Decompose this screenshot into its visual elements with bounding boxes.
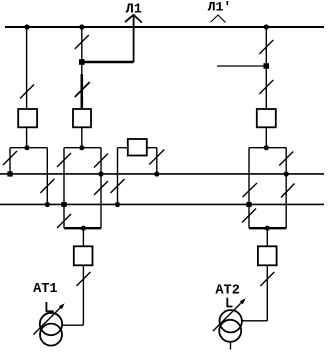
disconnector QS4 (upper slash on feeder 3) [259, 40, 273, 54]
breaker Q6 (AT2) [258, 246, 277, 265]
wire: feeder 2 vertical [81, 27, 83, 148]
node: coupler left / bus B [115, 202, 120, 207]
bus B (busbar 2) [0, 203, 324, 205]
wire: horizontal into AT2 [242, 320, 268, 322]
disconnector QS10 (bay 2 right upper) [94, 154, 108, 168]
svg-text:Л1: Л1 [126, 3, 142, 18]
disconnector QS15 (bay 3 left middle) [243, 183, 257, 197]
disconnector QS1 (slash on feeder 1) [20, 85, 34, 99]
line L1 arrowhead [125, 15, 142, 23]
breaker Q2 (feeder 2) [73, 109, 91, 127]
node: L1' tap junction [264, 63, 270, 69]
disconnector QS7 (bay 1 right) [40, 179, 54, 193]
wire: bay 3 top bar [249, 147, 286, 149]
node: bay 3 bottom bar [265, 226, 270, 231]
disconnector QS12 (AT1 branch slash) [76, 272, 90, 286]
wire: coupler right vertical [156, 148, 158, 174]
disconnector QS18 (bay 3 right middle) [281, 184, 295, 198]
disconnector QS11 (bay 2 right middle) [94, 181, 108, 195]
wire: bay 3 left vertical [248, 148, 250, 229]
node: bay 2 left / bus B [61, 202, 66, 207]
wire: AT2 LV stub [230, 342, 232, 350]
node: bay 2 top bar [79, 145, 84, 150]
wire: thick feeder 2 segment [81, 74, 84, 110]
node: bay 2 right / bus A [98, 171, 103, 176]
node: L1 tap junction [79, 59, 85, 65]
bus W1 (top line bus) [5, 26, 324, 28]
AT1 regulation arrow [34, 306, 63, 335]
wire: bay 3 bottom bar [249, 227, 286, 229]
disconnector QS8 (bay 2 left upper) [57, 153, 71, 167]
disconnector QS6 (bay 1 left) [3, 151, 17, 165]
disconnector QS13 (coupler left) [111, 179, 125, 193]
autotransformer AT1 lower winding [40, 324, 62, 346]
wire: breaker to AT1 [82, 265, 84, 325]
node: feeder 3 / bus W1 [264, 24, 269, 29]
disconnector QS9 (bay 2 left lower) [57, 214, 71, 228]
wire: bay 2 right vertical [100, 148, 102, 229]
line L1' arrowhead [211, 15, 226, 23]
svg-text:АТ2: АТ2 [215, 284, 239, 299]
wire: feeder 3 vertical [265, 27, 267, 148]
node: coupler right / bus A [154, 171, 159, 176]
autotransformer AT1 upper winding [40, 313, 62, 335]
disconnector QS19 (AT2 branch slash) [260, 272, 274, 286]
autotransformer AT2 lower winding [219, 320, 241, 342]
node: bay 3 right / bus A [284, 171, 289, 176]
disconnector QS2 (slash top of feeder 2) [75, 35, 89, 49]
wire: bay 2 bottom bar [64, 227, 101, 229]
wire: horizontal into AT1 [62, 324, 84, 326]
breaker Q5 (AT1) [74, 246, 93, 265]
breaker Q1 (feeder 1) [18, 109, 37, 127]
node: feeder 2 / bus W1 [79, 24, 84, 29]
wire: breaker to AT2 [266, 265, 268, 321]
wire: bay 1 top bar [10, 147, 47, 149]
wire: coupler left vertical [117, 148, 119, 205]
node: bay 3 left / bus B [246, 202, 251, 207]
wire: feeder 1 vertical [26, 27, 28, 148]
node: bay 1 top bar [24, 145, 29, 150]
disconnector QS16 (bay 3 left lower) [242, 209, 256, 223]
line L1 lead-in [133, 15, 135, 63]
bus A (busbar 1) [0, 173, 324, 175]
AT1 common-winding tap mark [46, 302, 53, 311]
wire: bus coupler bar [118, 147, 157, 149]
node: bay 3 top bar [264, 145, 269, 150]
wire: bay 3 right vertical [285, 148, 287, 229]
wire: bay 1 right branch [46, 148, 48, 205]
wire: thick tap from line L1 [82, 61, 134, 64]
wire: bay 2 left vertical [63, 148, 65, 229]
disconnector QS3 (thick slash on feeder 2) [75, 82, 90, 97]
breaker Q3 (feeder 3) [257, 109, 276, 127]
line L1' lead-in wire [217, 65, 266, 67]
disconnector QS5 (lower slash on feeder 3) [259, 80, 273, 94]
AT2 regulation arrow [213, 301, 244, 332]
node: bay 2 bottom bar [81, 226, 86, 231]
wire: bay 2 top bar [64, 147, 101, 149]
svg-text:Л1': Л1' [208, 0, 232, 15]
AT2 common-winding tap mark [227, 298, 232, 307]
svg-text:АТ1: АТ1 [33, 282, 57, 297]
node: feeder 1 / bus W1 [24, 24, 29, 29]
autotransformer AT2 upper winding [220, 310, 242, 332]
wire: bay 1 left branch [9, 148, 11, 174]
disconnector QS17 (bay 3 right upper) [279, 152, 293, 166]
node: bay 1 right / bus B [45, 202, 50, 207]
breaker Q4 (bus coupler) [128, 139, 147, 156]
wire: down to breaker of AT1 [82, 228, 84, 246]
disconnector QS14 (coupler right) [149, 150, 164, 165]
wire: down to breaker of AT2 [266, 228, 268, 246]
node: bay 1 left / bus A [7, 171, 12, 176]
